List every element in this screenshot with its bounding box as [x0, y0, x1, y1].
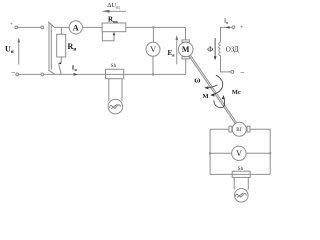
svg-text:+: +: [240, 25, 243, 31]
svg-text:Мс: Мс: [232, 89, 241, 96]
svg-text:+: +: [10, 21, 13, 27]
svg-text:Rпх: Rпх: [108, 16, 119, 25]
svg-text:ΔUщ: ΔUщ: [107, 2, 120, 10]
svg-text:Eя: Eя: [168, 49, 176, 58]
svg-text:Iв: Iв: [224, 18, 228, 26]
svg-text:ω: ω: [194, 74, 200, 84]
svg-text:V: V: [236, 149, 242, 158]
svg-text:А: А: [73, 23, 80, 33]
svg-text:Rя: Rя: [68, 42, 77, 53]
svg-text:М: М: [182, 45, 190, 54]
svg-text:ОЗД: ОЗД: [226, 46, 239, 54]
svg-text:Sh: Sh: [238, 167, 244, 172]
svg-text:Sh: Sh: [111, 64, 117, 69]
svg-text:Uя: Uя: [5, 45, 14, 56]
svg-text:ВГ: ВГ: [236, 128, 242, 133]
svg-text:М: М: [203, 93, 209, 100]
svg-text:–: –: [240, 68, 245, 76]
svg-text:Iя: Iя: [72, 64, 78, 72]
svg-text:V: V: [150, 45, 156, 54]
svg-text:–: –: [11, 68, 16, 76]
svg-text:Ф: Ф: [207, 44, 213, 53]
